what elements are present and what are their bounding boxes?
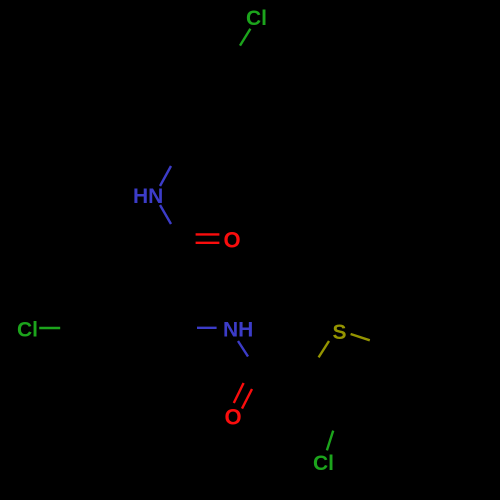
bond S1-C7a (olive half) — [351, 334, 370, 340]
carbonyl O1 double bond line a (red half) — [196, 233, 220, 235]
svg-text:Cl: Cl — [246, 7, 267, 30]
svg-text:O: O — [224, 227, 241, 252]
bond S1-C2 (olive half) — [319, 341, 329, 357]
bond N1-C(=O) (blue half) — [160, 205, 171, 224]
svg-text:O: O — [225, 405, 242, 430]
bond ring-N2 (blue half) — [197, 327, 217, 329]
svg-text:HN: HN — [133, 185, 163, 208]
bond Cl3-C3 (green half) — [327, 431, 333, 451]
carbonyl O2 double bond line b (red half) — [242, 389, 252, 409]
svg-text:Cl: Cl — [313, 452, 334, 475]
svg-text:NH: NH — [223, 318, 253, 341]
bond Cl2-C (green half) — [39, 327, 60, 329]
carbonyl O2 double bond line a (red half) — [234, 383, 244, 403]
carbonyl O1 double bond line b (red half) — [196, 242, 220, 244]
svg-text:S: S — [333, 321, 347, 344]
bond ring-N1 (blue half) — [160, 166, 171, 186]
bond N2-C(=O) (blue half) — [238, 341, 248, 357]
bond Cl1-C (green half) — [240, 29, 250, 46]
svg-text:Cl: Cl — [17, 318, 38, 341]
